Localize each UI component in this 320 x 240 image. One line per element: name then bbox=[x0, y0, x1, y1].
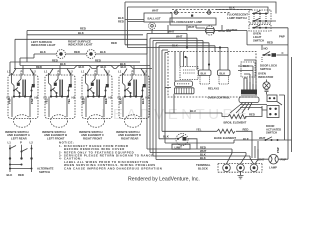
svg-text:INDICATOR LIGHT: INDICATOR LIGHT bbox=[68, 43, 93, 47]
relay K1 coil bbox=[199, 70, 212, 84]
svg-text:PNP: PNP bbox=[279, 35, 285, 39]
door lock motor connector comb bbox=[239, 90, 259, 103]
wire fan run RED upper bbox=[10, 62, 140, 75]
wire oven light switch to lamp feed bbox=[271, 28, 288, 140]
right surface indicator light DS4 bbox=[87, 50, 96, 59]
svg-text:YEL: YEL bbox=[67, 98, 71, 104]
svg-text:RIGHT REAR: RIGHT REAR bbox=[121, 137, 138, 141]
wire bundle verticals center bbox=[147, 34, 168, 160]
svg-text:RELAYS: RELAYS bbox=[208, 87, 219, 91]
svg-text:BALLAST: BALLAST bbox=[148, 17, 161, 21]
wire stack horizontals into control bbox=[147, 30, 215, 52]
alternate switch S9 bbox=[7, 141, 54, 177]
wire comb fan-out bbox=[230, 103, 252, 114]
svg-text:RED: RED bbox=[118, 19, 124, 23]
wire BLK main run bbox=[27, 34, 143, 36]
svg-text:P: P bbox=[20, 141, 22, 145]
wire RED drop to door lock box bbox=[246, 31, 248, 45]
svg-text:PNP: PNP bbox=[276, 147, 280, 153]
svg-text:WHT: WHT bbox=[152, 9, 159, 13]
wire lamp box drops bbox=[168, 25, 196, 34]
label fluorescent lamp switch bbox=[226, 13, 248, 32]
wire connector to right column bbox=[277, 57, 292, 152]
svg-text:BLK: BLK bbox=[163, 134, 169, 138]
svg-text:BLK: BLK bbox=[172, 44, 178, 48]
svg-text:BLK: BLK bbox=[200, 156, 206, 160]
wire ballast taps bbox=[125, 20, 144, 22]
label unit2 bbox=[42, 130, 67, 141]
svg-text:NO: NO bbox=[264, 47, 269, 51]
door actuated switch S8 connector bbox=[266, 106, 281, 135]
svg-text:CAN CAUSE IMPROPER AND DANGERO: CAN CAUSE IMPROPER AND DANGEROUS OPERATI… bbox=[64, 166, 162, 170]
svg-text:L2: L2 bbox=[30, 141, 34, 145]
wire relay outputs to right bbox=[238, 60, 256, 90]
svg-text:RED: RED bbox=[95, 58, 101, 62]
door lock switch S3 bbox=[247, 45, 288, 71]
wire control interior drops bbox=[175, 38, 228, 81]
svg-text:WHT: WHT bbox=[176, 35, 183, 39]
svg-text:WHT: WHT bbox=[259, 136, 266, 140]
svg-text:SWITCH: SWITCH bbox=[253, 38, 264, 42]
svg-text:RED: RED bbox=[52, 58, 58, 62]
svg-text:BROIL ELEMENT: BROIL ELEMENT bbox=[224, 120, 247, 124]
svg-text:BLK: BLK bbox=[119, 98, 123, 104]
svg-text:BLK: BLK bbox=[141, 98, 145, 104]
wire comb feeds bbox=[244, 78, 256, 90]
fluorescent lamp DS1 dashed tube bbox=[170, 10, 250, 17]
motor symbol under ballast bbox=[149, 22, 156, 33]
svg-text:BLK: BLK bbox=[7, 173, 13, 177]
wire top outer BLK L1 feed bbox=[125, 2, 276, 45]
oven indicator lamp DS2 bbox=[258, 72, 273, 95]
svg-text:C: C bbox=[282, 51, 284, 55]
wire RED main run bbox=[27, 31, 247, 63]
svg-text:BLK: BLK bbox=[220, 71, 226, 75]
svg-text:RED: RED bbox=[82, 98, 86, 104]
svg-text:BLK: BLK bbox=[79, 65, 85, 69]
oven lamp DS5 bbox=[258, 147, 286, 170]
broil element E5 bbox=[224, 106, 263, 124]
svg-text:BLK: BLK bbox=[121, 65, 127, 69]
svg-text:INDICATOR: INDICATOR bbox=[258, 75, 273, 79]
svg-text:SWITCH: SWITCH bbox=[260, 67, 271, 71]
ground bbox=[238, 171, 244, 179]
terminal N bbox=[237, 164, 245, 172]
infinite switch unit 2 S5/E2 bbox=[44, 70, 76, 128]
oven light switch S2 bbox=[249, 25, 285, 43]
svg-text:BLK: BLK bbox=[101, 65, 107, 69]
terminal L1 bbox=[223, 164, 231, 172]
svg-text:LAMP: LAMP bbox=[269, 166, 277, 170]
wire lamp feed with switch contacts bbox=[165, 136, 292, 143]
label unit1 bbox=[5, 130, 30, 141]
svg-text:RED: RED bbox=[249, 113, 255, 117]
wire YEL run bbox=[162, 130, 217, 132]
svg-text:RED: RED bbox=[18, 173, 24, 177]
terminal L2 bbox=[250, 164, 258, 172]
hi-limit thermostat TCO bbox=[159, 134, 197, 150]
svg-text:BLK: BLK bbox=[229, 6, 235, 10]
wire BLK control top bbox=[128, 47, 229, 49]
starter bbox=[196, 25, 231, 35]
wire connector rows bbox=[240, 105, 267, 111]
wire verticals from above to terminals bbox=[252, 143, 258, 160]
svg-text:INDICATOR LIGHT: INDICATOR LIGHT bbox=[31, 43, 56, 47]
control board connector bbox=[175, 81, 193, 87]
door switch connector upper bbox=[267, 95, 277, 102]
svg-text:FLUORESCENT LAMP: FLUORESCENT LAMP bbox=[173, 20, 203, 24]
svg-text:BLK: BLK bbox=[100, 50, 106, 54]
infinite switch unit 3 S6/E3 bbox=[81, 70, 113, 128]
notice text block bbox=[59, 141, 162, 171]
label unit4 bbox=[116, 130, 141, 141]
terminal block TB1 bbox=[196, 163, 262, 172]
svg-text:PNP: PNP bbox=[8, 98, 12, 104]
ballast B1 bbox=[144, 9, 172, 23]
relay K1 dashed box bbox=[180, 67, 198, 80]
surface indicator lights box bbox=[15, 39, 147, 68]
svg-text:WHT: WHT bbox=[168, 30, 175, 34]
svg-text:BLK: BLK bbox=[60, 62, 66, 66]
svg-text:RED: RED bbox=[74, 50, 80, 54]
wire top inner feed bbox=[128, 7, 269, 48]
svg-text:YEL: YEL bbox=[196, 128, 202, 132]
svg-text:SWITCH: SWITCH bbox=[266, 131, 277, 135]
wire bottom runs to terminal block bbox=[147, 145, 258, 160]
svg-text:YEL: YEL bbox=[45, 98, 49, 104]
svg-text:HEATER: HEATER bbox=[226, 28, 237, 32]
relay K3 dashed box bbox=[241, 62, 255, 77]
oven temp sensor RT1 plug bbox=[175, 88, 195, 94]
svg-text:BLU: BLU bbox=[190, 109, 196, 113]
svg-text:BLK: BLK bbox=[78, 31, 84, 35]
svg-text:L1: L1 bbox=[8, 141, 12, 145]
svg-text:BLK: BLK bbox=[40, 50, 46, 54]
svg-text:RED: RED bbox=[243, 127, 249, 131]
svg-text:RED: RED bbox=[267, 41, 273, 45]
bake element E6 bbox=[214, 127, 252, 143]
svg-text:LEFT REAR: LEFT REAR bbox=[11, 137, 27, 141]
wire indicator lamp row bbox=[20, 50, 147, 65]
svg-text:WHT: WHT bbox=[188, 25, 195, 29]
wire BLK fluorescent to switch bbox=[216, 9, 252, 11]
svg-text:RIGHT FRONT: RIGHT FRONT bbox=[83, 137, 102, 141]
oven control A1 dashed enclosure bbox=[168, 52, 256, 100]
svg-text:LAMP SWITCH: LAMP SWITCH bbox=[227, 16, 247, 20]
svg-text:OVEN CONTROL: OVEN CONTROL bbox=[208, 96, 231, 100]
svg-text:RED: RED bbox=[104, 98, 108, 104]
wire fan run lower with bridge humps bbox=[14, 65, 152, 68]
wire fan run BLK mid bbox=[20, 65, 150, 67]
svg-text:Rendered by LeadVenture, Inc.: Rendered by LeadVenture, Inc. bbox=[128, 177, 200, 183]
infinite switch unit 4 S7/E4 bbox=[118, 70, 150, 128]
wire feeds to terminals bbox=[227, 149, 259, 164]
left surface indicator light DS3 bbox=[57, 50, 66, 59]
svg-text:RED: RED bbox=[111, 41, 117, 45]
relay K2 coil bbox=[218, 70, 231, 84]
wire unit feed diagonals bbox=[12, 66, 145, 76]
wire lamp circuit bbox=[258, 140, 288, 159]
wire control left outline to BLU bbox=[165, 88, 228, 117]
svg-text:SWITCH: SWITCH bbox=[39, 170, 50, 174]
fluorescent lamp label box bbox=[170, 18, 216, 29]
svg-text:BLOCK: BLOCK bbox=[198, 166, 208, 170]
infinite switch unit 1 S4/E1 bbox=[7, 70, 39, 128]
label unit3 bbox=[79, 130, 104, 141]
svg-text:RED: RED bbox=[36, 65, 42, 69]
svg-text:PNP: PNP bbox=[30, 98, 34, 104]
svg-text:BLK: BLK bbox=[201, 71, 207, 75]
svg-text:BAKE ELEMENT: BAKE ELEMENT bbox=[214, 136, 236, 140]
fluorescent lamp switch S1 bbox=[249, 10, 276, 23]
